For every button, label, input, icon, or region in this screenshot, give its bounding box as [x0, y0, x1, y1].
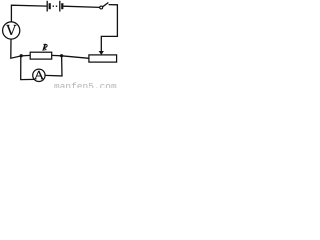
- wire voltmeter top up to top-left corner and right to battery: [11, 5, 47, 22]
- node J2 junction dot: [60, 54, 63, 57]
- battery cell1 short thick plate: [49, 3, 51, 9]
- wire switch contact to top-right corner, down right side, jog left: [101, 5, 117, 52]
- node J1 junction dot: [20, 54, 23, 57]
- resistor R label (drawn italic glyph): [42, 44, 47, 50]
- wire battery to switch: [63, 6, 100, 7]
- resistor R box: [30, 52, 52, 59]
- wire R right side to node J2: [52, 54, 62, 56]
- battery continuation dash 1: [53, 5, 54, 7]
- battery cell2 short thick plate: [61, 3, 63, 9]
- rheostat box: [89, 55, 117, 62]
- wire node J1 down to bottom-left corner and right to ammeter: [21, 56, 35, 80]
- battery continuation dash 2: [56, 5, 57, 7]
- switch blade: [103, 3, 109, 7]
- voltmeter V label (drawn glyph): [7, 25, 17, 35]
- wire voltmeter bottom down, corner, right through node J1 to R left: [11, 39, 30, 58]
- rheostat wiper arrowhead: [99, 51, 104, 55]
- ammeter circle: [33, 69, 45, 81]
- switch pivot circle: [100, 6, 103, 9]
- battery cell1 long plate: [46, 1, 48, 12]
- ammeter A label (drawn glyph): [34, 71, 43, 79]
- wire ammeter right to corner and up to node J2: [45, 56, 62, 76]
- voltmeter circle: [3, 22, 20, 39]
- wire rheostat left terminal to node J2: [62, 56, 89, 59]
- watermark manfen5.com: [54, 81, 117, 92]
- battery cell2 long plate: [59, 1, 61, 12]
